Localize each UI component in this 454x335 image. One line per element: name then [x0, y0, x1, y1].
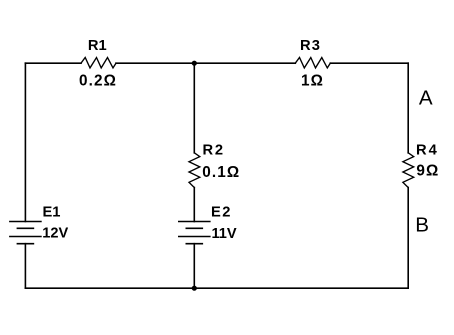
svg-text:B: B	[415, 214, 429, 237]
svg-text:9Ω: 9Ω	[416, 163, 439, 180]
svg-text:R4: R4	[416, 143, 439, 159]
resistor R3	[295, 58, 330, 68]
svg-text:0.1Ω: 0.1Ω	[202, 164, 240, 181]
svg-text:R3: R3	[300, 38, 321, 54]
node junction dot bottom	[192, 286, 197, 291]
resistor R4	[403, 153, 414, 188]
wire left edge upper: corner down to E1	[24, 63, 26, 221]
svg-text:0.2Ω: 0.2Ω	[79, 72, 117, 89]
svg-text:A: A	[419, 87, 433, 110]
resistor R2	[189, 153, 200, 188]
wire bottom	[25, 287, 408, 289]
battery E1	[10, 222, 41, 244]
wire top-left: left corner to R1	[25, 62, 81, 64]
wire right edge lower: R4 to bottom corner	[407, 188, 409, 289]
svg-text:R2: R2	[203, 143, 225, 159]
battery E2	[179, 222, 210, 244]
svg-text:R1: R1	[88, 38, 107, 54]
wire top-middle: R1 to R3	[116, 62, 295, 64]
wire left edge lower: E1 to bottom corner	[24, 244, 26, 289]
wire middle: R2 to E2	[193, 188, 195, 222]
resistor R1	[81, 58, 116, 68]
svg-text:1Ω: 1Ω	[301, 73, 324, 90]
wire top-right: R3 to right corner	[330, 62, 408, 64]
wire right edge upper: corner down to R4	[407, 63, 409, 153]
svg-text:E2: E2	[211, 205, 232, 221]
wire middle lower: E2 to bottom junction	[193, 244, 195, 289]
svg-text:11V: 11V	[212, 226, 237, 242]
svg-text:12V: 12V	[42, 226, 68, 242]
svg-text:E1: E1	[43, 205, 61, 221]
wire middle upper: top junction down to R2	[193, 63, 195, 153]
node junction dot top	[192, 61, 197, 66]
